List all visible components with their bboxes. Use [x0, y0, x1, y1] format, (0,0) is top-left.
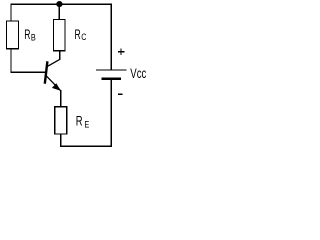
transistor Q1 emitter diagonal	[46, 76, 60, 91]
svg-text:R: R	[75, 27, 81, 42]
wire bottom rail	[60, 145, 112, 147]
wire left drop from rail to RB	[10, 4, 12, 21]
label minus sign	[118, 93, 123, 95]
wire RB bottom to base corner	[10, 49, 12, 73]
wire base horizontal	[10, 71, 45, 73]
svg-text:R: R	[76, 114, 83, 129]
resistor RE	[55, 107, 67, 134]
transistor Q1 emitter arrowhead	[52, 83, 61, 91]
resistor RC	[54, 19, 65, 50]
svg-text:C: C	[81, 32, 86, 43]
transistor Q1 base bar	[45, 61, 48, 83]
svg-text:E: E	[84, 119, 89, 130]
resistor RB	[7, 21, 19, 49]
wire RE bottom drop	[60, 134, 62, 147]
label plus sign	[118, 48, 124, 55]
wire top rail	[10, 3, 112, 5]
battery VCC plate short (-)	[102, 77, 122, 80]
transistor Q1 collector diagonal	[48, 59, 60, 66]
wire right vcc lower	[110, 79, 112, 147]
wire collector vertical	[59, 51, 61, 60]
wire right vcc upper	[110, 4, 112, 70]
svg-text:Vcc: Vcc	[130, 65, 146, 81]
wire emitter vertical	[60, 90, 62, 107]
wire RC top drop from dot	[58, 4, 60, 19]
battery VCC plate long (+)	[96, 69, 126, 71]
svg-text:B: B	[31, 32, 36, 43]
svg-text:R: R	[24, 27, 30, 42]
node junction dot	[56, 1, 62, 7]
